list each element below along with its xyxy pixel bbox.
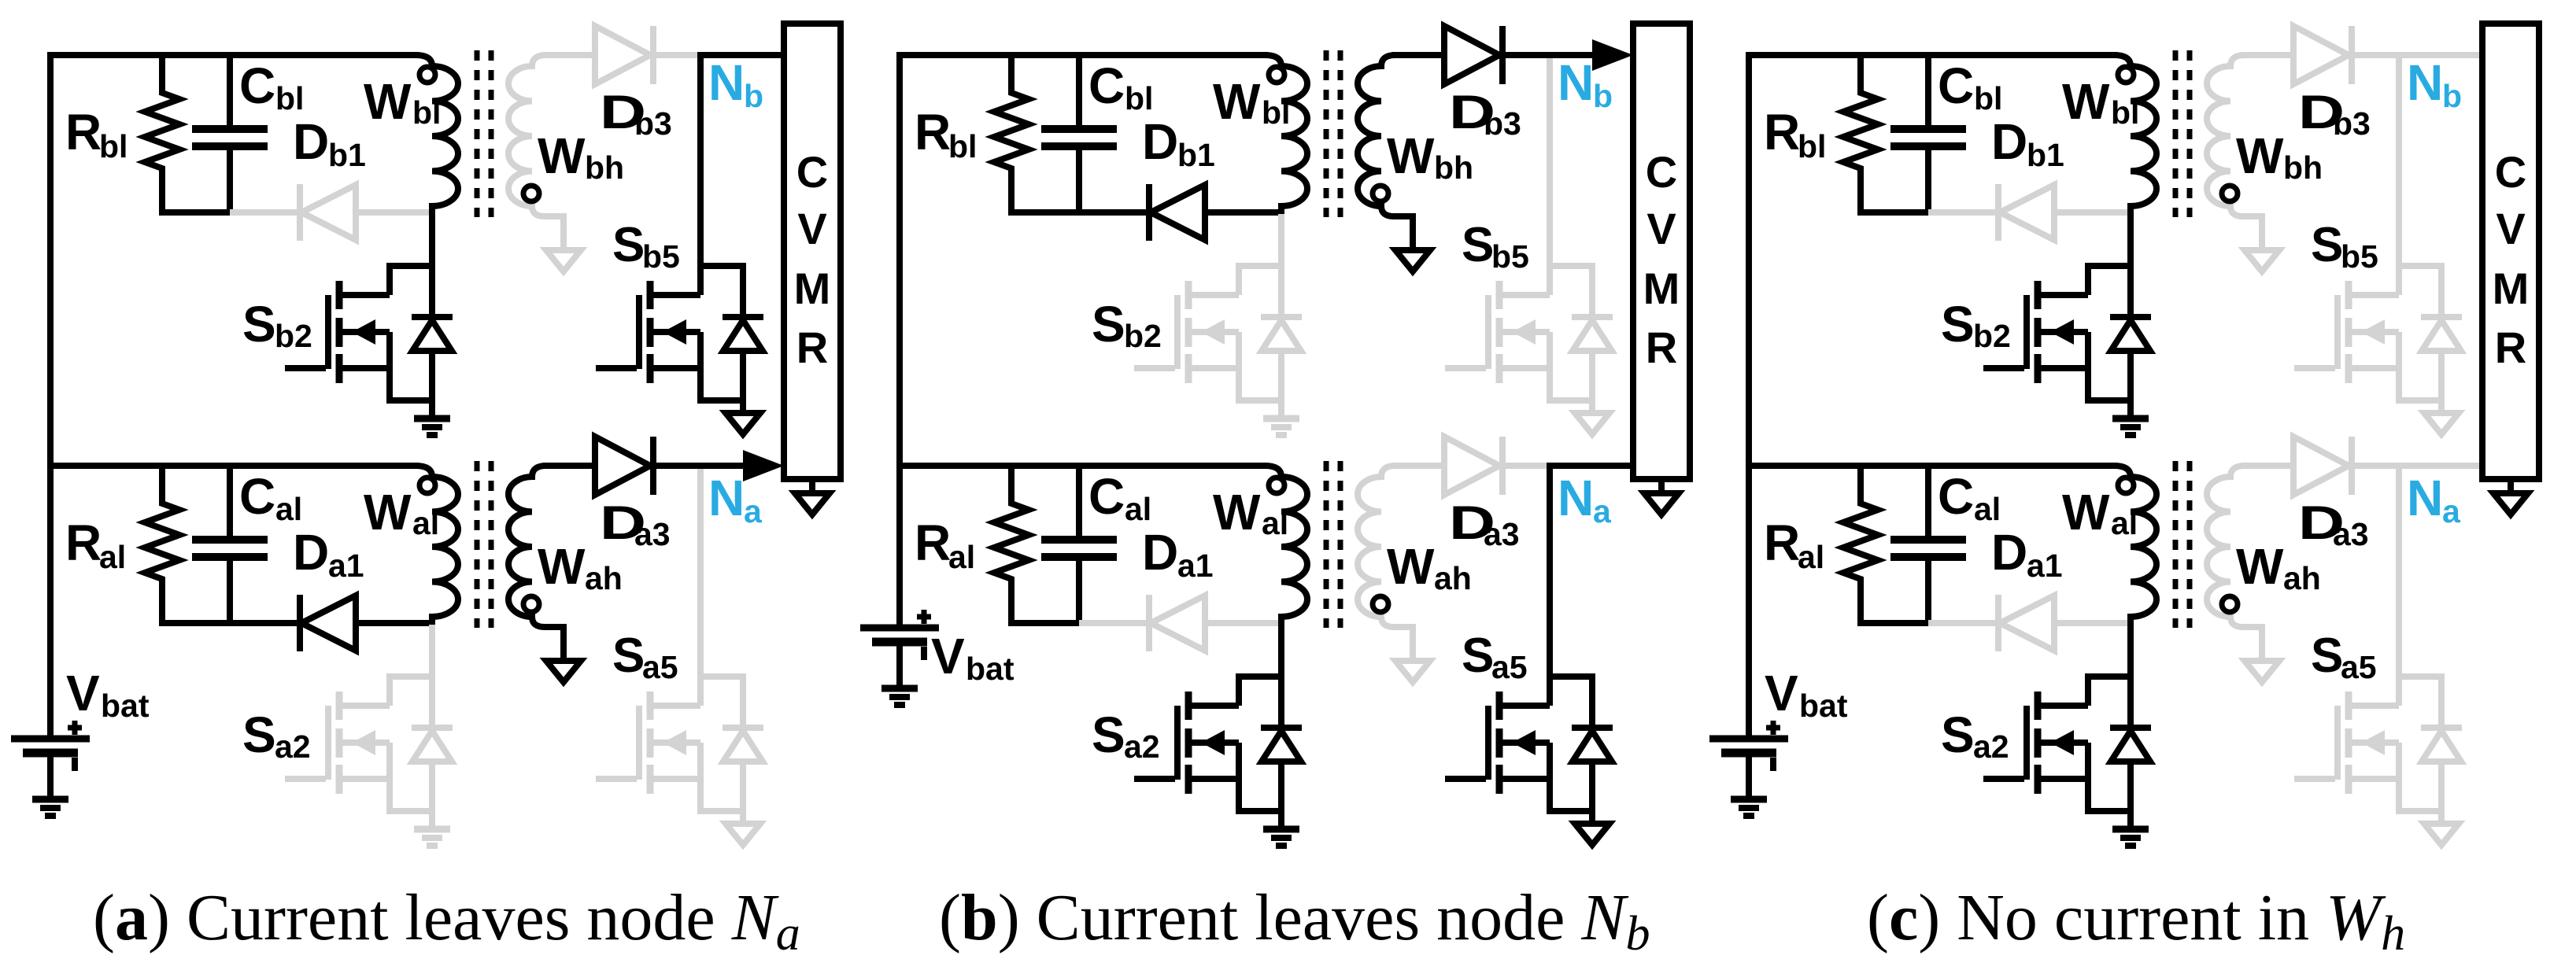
wire: winding Wbl bottom to Sb2 drain [2127,212,2134,266]
svg-text:S: S [612,218,645,272]
polarity dot Wal [2118,478,2134,493]
svg-text:W: W [2062,73,2110,130]
wire: b-row rail from battery bus to winding Wbl [896,52,1268,58]
transistor Sb5 [2294,365,2335,371]
node N_b wire to CVMR [697,52,785,58]
svg-text:R: R [1764,515,1800,571]
svg-text:N: N [2407,470,2443,526]
polarity dot Wbh [2222,186,2238,201]
wire: battery bus (left vertical rail) panel b [896,52,903,628]
svg-text:bat: bat [101,688,150,724]
transformer secondary winding Wbh [2207,55,2262,250]
wire: node N_b down to Sb5 drain [1547,55,1553,266]
svg-text:W: W [2236,127,2284,184]
wire: node N_b down to Sb5 drain [2396,55,2402,266]
svg-text:b1: b1 [328,137,366,173]
svg-text:R: R [796,323,828,372]
transformer core [1324,50,1329,217]
svg-text:al: al [99,539,126,575]
svg-text:W: W [1213,73,1261,130]
svg-text:a5: a5 [1491,649,1528,685]
diode Db3 [543,52,596,58]
transistor Sa2 [1983,776,2024,782]
capacitor Cal [1076,466,1082,540]
svg-text:al: al [2111,505,2138,541]
svg-text:N: N [708,54,745,111]
svg-text:bl: bl [1262,94,1290,131]
svg-text:V: V [1765,665,1798,721]
node N_a wire to CVMR [1547,463,1635,469]
svg-text:C: C [1938,57,1974,114]
svg-text:R: R [65,104,102,160]
polarity dot Wah [2222,596,2238,612]
transformer core [2173,50,2179,217]
svg-text:a: a [1593,493,1612,529]
svg-text:b: b [1593,78,1613,114]
diode Da3 [2242,463,2294,469]
svg-text:C: C [1088,468,1125,525]
svg-text:a2: a2 [275,728,311,765]
transistor Sb2 [1983,365,2024,371]
node N_a wire to CVMR [2396,463,2484,469]
battery Vbat panel b [860,625,939,632]
battery Vbat panel a [11,736,90,743]
polarity dot Wah [523,596,539,612]
wire: winding Wal bottom to Sa2 drain [2127,623,2134,677]
transformer core [1324,461,1329,628]
transformer secondary winding Wah [508,466,564,661]
svg-text:D: D [1991,113,2027,170]
wire: bottom of Rbl to Cbl [1857,209,1931,216]
transistor Sa2 [1134,776,1175,782]
svg-text:al: al [1262,505,1288,541]
svg-text:D: D [1142,113,1178,170]
svg-text:b5: b5 [2341,238,2378,275]
capacitor Cbl [1925,55,1931,129]
svg-text:bl: bl [1798,128,1826,164]
svg-text:S: S [242,706,276,763]
wire: bottom of Ral to Cal [1008,620,1082,626]
svg-text:R: R [65,515,102,571]
wire: b-row rail from battery bus to winding Wbl [47,52,419,58]
svg-text:C: C [239,468,275,525]
svg-text:(c) No current in Wh: (c) No current in Wh [1867,881,2405,961]
svg-text:W: W [1387,538,1435,595]
capacitor Cal [227,466,233,540]
diode Da1 [1928,620,1998,626]
svg-text:bl: bl [948,128,977,164]
transistor Sa5 [1445,776,1486,782]
transformer secondary winding Wah [1358,466,1413,661]
wire: battery bus (left vertical rail) panel c [1746,52,1752,739]
transformer secondary winding Wah [2207,466,2262,661]
wire: node N_a down to Sa5 drain [2396,466,2402,677]
transistor Sa5 [2294,776,2335,782]
svg-text:V: V [2496,204,2525,253]
transistor Sb2 [1134,365,1175,371]
diode Db1 [1079,209,1148,216]
svg-text:S: S [2311,218,2343,272]
svg-text:a1: a1 [1177,548,1214,584]
diode Db1 [1928,209,1998,216]
node N_b wire to CVMR [2396,52,2484,58]
svg-text:bl: bl [1125,80,1153,116]
svg-text:bl: bl [1974,80,2002,116]
wire: node N_a down to Sa5 drain [697,466,704,677]
svg-text:b3: b3 [1484,105,1521,142]
svg-text:S: S [242,296,276,352]
wire: bottom of Rbl to Cbl [159,209,233,216]
svg-text:D: D [1991,524,2027,581]
svg-text:a3: a3 [1484,516,1520,552]
svg-text:ah: ah [2283,560,2321,596]
resistor Rbl [145,55,179,212]
svg-text:R: R [915,515,951,571]
svg-text:b1: b1 [2027,137,2064,173]
diode Db3 [1392,52,1445,58]
svg-text:al: al [948,539,975,575]
svg-text:a5: a5 [2341,649,2377,685]
svg-text:V: V [931,628,965,684]
diode Da3 [1392,463,1445,469]
capacitor Cal [1925,466,1931,540]
wire: winding Wbl bottom to Sb2 drain [1278,212,1284,266]
svg-text:a1: a1 [2027,548,2063,584]
svg-text:R: R [1764,104,1800,160]
polarity dot Wbh [523,186,539,201]
svg-text:M: M [1643,264,1680,313]
svg-text:b2: b2 [275,318,312,354]
svg-text:D: D [293,113,329,170]
wire: bottom of Ral to Cal [1857,620,1931,626]
wire: bottom of Ral to Cal [159,620,233,626]
svg-text:a2: a2 [1973,728,2009,765]
resistor Rbl [994,55,1029,212]
wire: a-row rail from battery bus to winding Wal [1746,463,2117,469]
transistor Sb2 [285,365,326,371]
svg-text:b: b [744,78,763,114]
svg-text:bl: bl [275,80,304,116]
polarity dot Wbl [419,67,435,83]
svg-text:bat: bat [1799,688,1848,724]
transformer core [475,461,480,628]
node N_b wire to CVMR [1547,52,1603,58]
svg-text:N: N [1558,54,1594,111]
svg-text:W: W [364,484,412,540]
svg-text:R: R [1646,323,1677,372]
svg-text:bl: bl [99,128,128,164]
svg-text:bh: bh [585,149,624,186]
svg-text:W: W [1387,127,1435,184]
polarity dot Wal [1269,478,1284,493]
svg-text:b: b [2442,78,2462,114]
svg-text:al: al [1125,491,1151,527]
svg-text:R: R [915,104,951,160]
svg-text:W: W [538,127,586,184]
CVMR block panel b [1633,24,1690,479]
transistor Sb5 [1445,365,1486,371]
wire: b-row rail from battery bus to winding Wbl [1746,52,2117,58]
svg-text:ah: ah [1434,560,1472,596]
svg-text:V: V [797,204,826,253]
transformer secondary winding Wbh [1358,55,1413,250]
svg-text:al: al [1798,539,1824,575]
wire: a-row rail from battery bus to winding Wal [47,463,419,469]
svg-text:S: S [1462,629,1494,683]
svg-text:N: N [2407,54,2443,111]
svg-text:b2: b2 [1973,318,2011,354]
svg-text:W: W [364,73,412,130]
svg-text:C: C [2495,147,2526,197]
polarity dot Wbh [1373,186,1388,201]
transformer primary winding Wal [416,466,458,625]
transistor Sb5 [596,365,637,371]
svg-text:a: a [744,493,763,529]
svg-text:b5: b5 [642,238,680,275]
polarity dot Wbl [2118,67,2134,83]
svg-text:(a) Current leaves node Na: (a) Current leaves node Na [93,881,800,961]
svg-text:S: S [1462,218,1494,272]
svg-text:al: al [412,505,439,541]
capacitor Cbl [227,55,233,129]
transformer primary winding Wal [1265,466,1307,625]
svg-text:D: D [1142,524,1178,581]
svg-text:N: N [1558,470,1594,526]
diode Da1 [230,620,299,626]
svg-text:a3: a3 [634,516,671,552]
diode Da1 [1079,620,1148,626]
CVMR block panel a [784,24,841,479]
svg-text:al: al [1974,491,2001,527]
capacitor Cbl [1076,55,1082,129]
svg-text:S: S [1092,706,1125,763]
svg-text:b1: b1 [1177,137,1215,173]
battery Vbat panel c [1709,736,1788,743]
resistor Rbl [1843,55,1878,212]
wire: winding Wal bottom to Sa2 drain [429,623,435,677]
wire: bottom of Rbl to Cbl [1008,209,1082,216]
transformer secondary winding Wbh [508,55,564,250]
transistor Sa2 [285,776,326,782]
wire: winding Wbl bottom to Sb2 drain [429,212,435,266]
svg-text:C: C [1088,57,1125,114]
polarity dot Wbl [1269,67,1284,83]
svg-text:V: V [66,665,100,721]
svg-text:N: N [708,470,745,526]
svg-text:ah: ah [585,560,623,596]
resistor Ral [145,466,179,623]
transformer primary winding Wbl [416,55,458,214]
svg-text:bh: bh [2283,149,2323,186]
svg-text:W: W [538,538,586,595]
diode Db3 [2242,52,2294,58]
polarity dot Wah [1373,596,1388,612]
svg-text:D: D [293,524,329,581]
transformer primary winding Wal [2114,466,2157,625]
svg-text:bh: bh [1434,149,1473,186]
svg-text:M: M [2493,264,2530,313]
wire: battery bus (left vertical rail) panel a [47,52,54,739]
wire: a-row rail from battery bus to winding Wal [896,463,1268,469]
wire: winding Wal bottom to Sa2 drain [1278,623,1284,677]
node N_a wire to CVMR [697,463,754,469]
svg-text:M: M [794,264,831,313]
svg-text:S: S [612,629,645,683]
svg-text:a3: a3 [2333,516,2369,552]
polarity dot Wal [419,478,435,493]
svg-text:W: W [2236,538,2284,595]
svg-text:W: W [2062,484,2110,540]
svg-text:C: C [1646,147,1677,197]
svg-text:W: W [1213,484,1261,540]
svg-text:b5: b5 [1491,238,1529,275]
transformer core [475,50,480,217]
diode Db1 [230,209,299,216]
CVMR block panel c [2482,24,2539,479]
svg-text:C: C [239,57,275,114]
transformer core [2173,461,2179,628]
svg-text:a2: a2 [1124,728,1160,765]
svg-text:a5: a5 [642,649,678,685]
transformer primary winding Wbl [2114,55,2157,214]
svg-text:b2: b2 [1124,318,1162,354]
transformer primary winding Wbl [1265,55,1307,214]
svg-text:bl: bl [2111,94,2139,131]
svg-text:a: a [2442,493,2461,529]
svg-text:V: V [1646,204,1676,253]
svg-text:S: S [1941,296,1975,352]
svg-text:b3: b3 [2333,105,2371,142]
svg-text:C: C [796,147,828,197]
wire: node N_b down to Sb5 drain [697,55,704,266]
svg-text:al: al [275,491,302,527]
resistor Ral [1843,466,1878,623]
wire: node N_a down to Sa5 drain [1547,466,1553,677]
diode Da3 [543,463,596,469]
resistor Ral [994,466,1029,623]
svg-text:S: S [1092,296,1125,352]
svg-text:b3: b3 [634,105,672,142]
svg-text:S: S [2311,629,2343,683]
svg-text:R: R [2495,323,2526,372]
svg-text:bat: bat [966,651,1015,687]
svg-text:C: C [1938,468,1974,525]
svg-text:S: S [1941,706,1975,763]
svg-text:a1: a1 [328,548,364,584]
svg-text:bl: bl [412,94,441,131]
svg-text:(b) Current leaves node Nb: (b) Current leaves node Nb [939,881,1650,961]
transistor Sa5 [596,776,637,782]
